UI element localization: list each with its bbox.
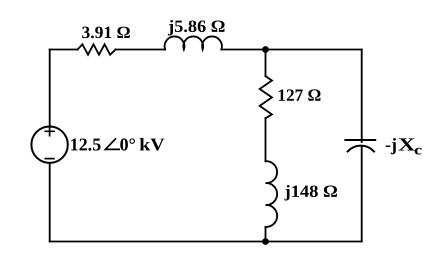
label capacitor minus j	[386, 138, 396, 154]
label source value 12.5	[71, 138, 100, 150]
label L1 value j5.86 ohm	[168, 20, 225, 36]
wire left side vertical (top)	[49, 50, 51, 127]
node B junction dot	[262, 238, 269, 245]
label source value unit kV	[140, 138, 165, 151]
wire left side vertical (bottom)	[49, 163, 51, 242]
label R1 value 3.91 ohm	[82, 27, 130, 39]
capacitor C1 top plate	[345, 139, 375, 141]
voltage source plus sign	[45, 127, 54, 136]
wire top-left segment	[50, 49, 78, 51]
label R2 value 127 ohm	[279, 89, 321, 100]
node A junction dot	[262, 46, 269, 53]
wire right side vertical (top, to capacitor)	[361, 50, 363, 142]
label source value 0 degrees	[120, 138, 135, 150]
voltage source VS circle	[31, 127, 67, 163]
label capacitor subscript c	[415, 148, 422, 155]
wire right side vertical (bottom, from capacitor)	[361, 146, 363, 242]
inductor L2 j148 ohm	[266, 161, 278, 227]
capacitor C1 curved bottom plate	[348, 146, 374, 152]
wire node A down to R2	[265, 50, 267, 77]
label L2 value j148 ohm	[284, 185, 337, 201]
wire bottom	[50, 241, 362, 243]
wire L2 to node B	[265, 227, 267, 242]
angle symbol of source label	[105, 138, 120, 149]
wire node A to top-right corner	[266, 49, 362, 51]
resistor R2 127 ohm	[260, 76, 272, 118]
voltage source minus sign	[45, 158, 54, 160]
label capacitor X	[398, 138, 415, 150]
wire between R1 and L1	[116, 49, 166, 51]
wire L1 to node A	[221, 49, 265, 51]
wire R2 to L2	[265, 118, 267, 161]
resistor R1 3.91 ohm	[78, 44, 116, 54]
inductor L1 j5.86 ohm	[165, 36, 222, 49]
